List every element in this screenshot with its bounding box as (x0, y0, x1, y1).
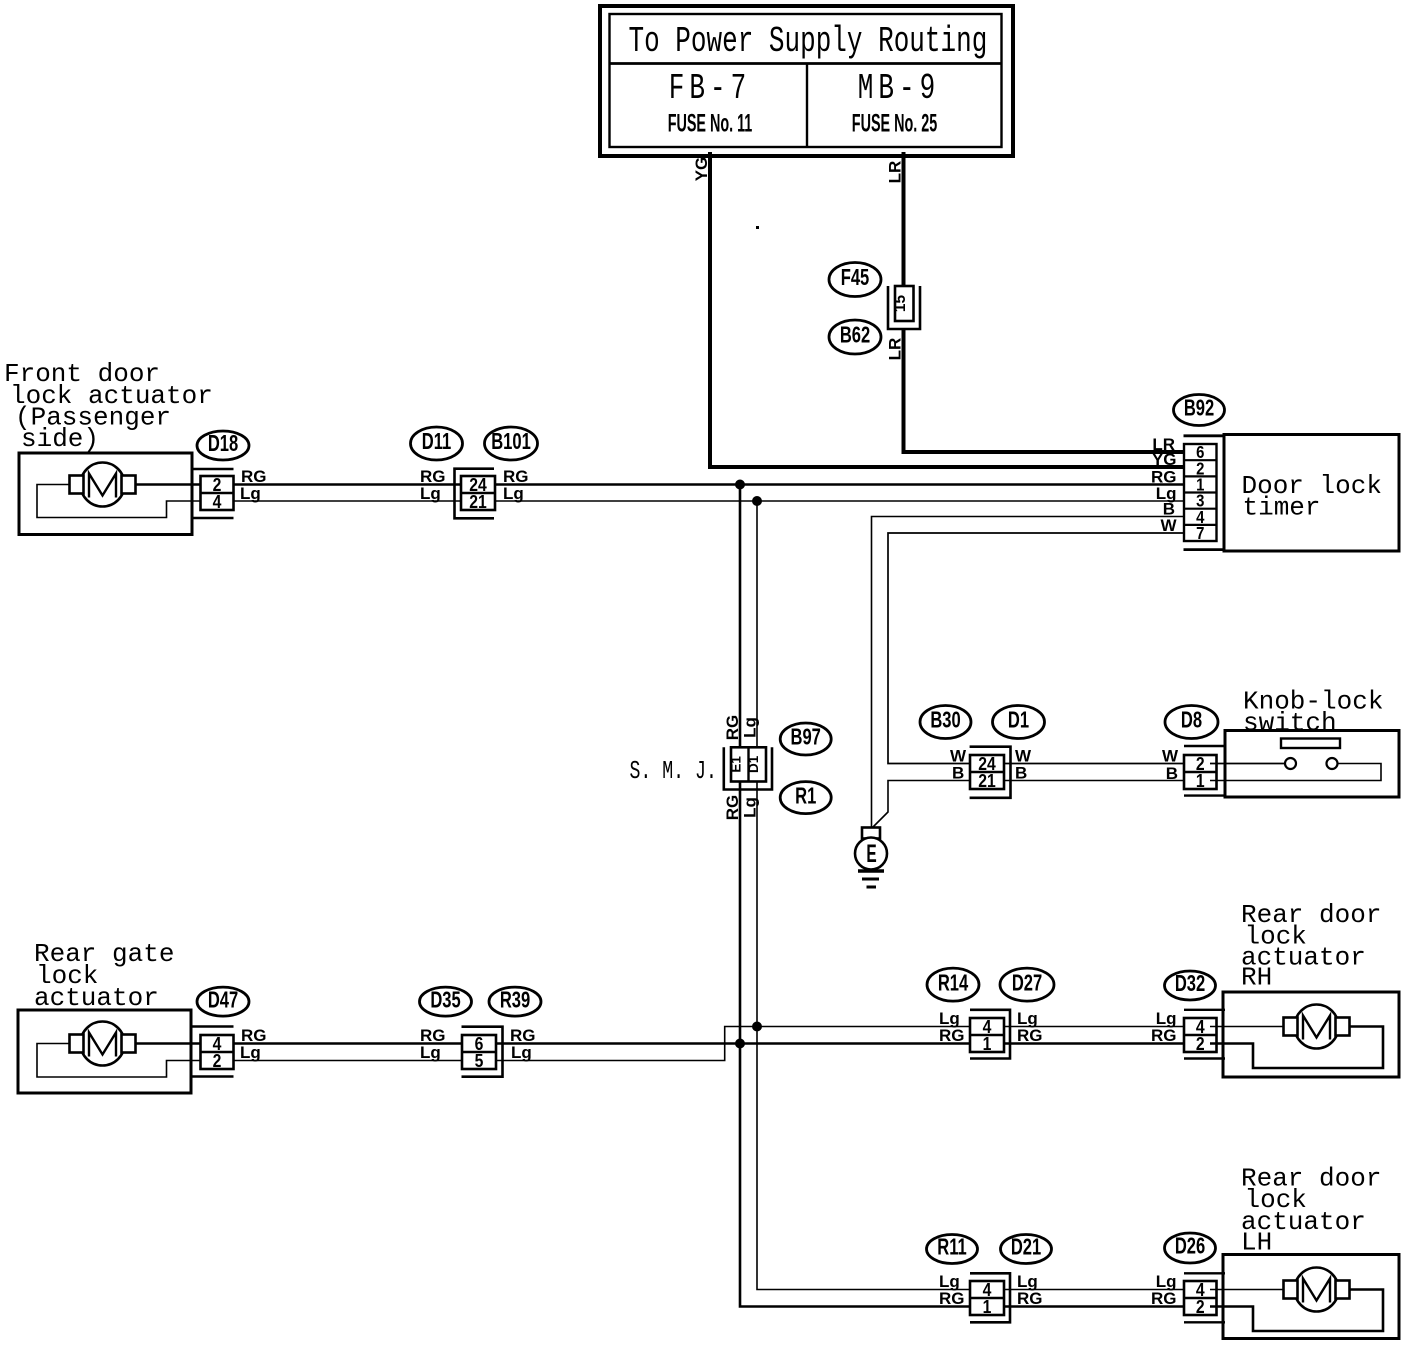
wire Lg row1 (233, 484, 1184, 503)
wire RG rear gate to D35 (233, 1026, 462, 1045)
wire W B30 to D8 (1004, 747, 1184, 766)
wire B timer pin4 to ground (872, 517, 1185, 828)
wire W timer pin7 to knob-lock switch (888, 533, 1184, 766)
svg-text:1: 1 (983, 1033, 992, 1055)
wire Lg D35 to R14 with step (496, 1027, 970, 1063)
svg-text:LR: LR (886, 338, 905, 361)
svg-text:S. M. J.: S. M. J. (630, 756, 717, 786)
svg-text:B97: B97 (791, 725, 821, 750)
wire Lg rear gate to D35 (233, 1043, 462, 1062)
wire YG from FB-7 to timer pin 2 (692, 152, 1184, 469)
wire Lg R11 to D26 (1004, 1272, 1184, 1291)
svg-text:RG: RG (1017, 1026, 1043, 1045)
svg-text:15: 15 (892, 295, 909, 313)
svg-text:side): side) (21, 424, 99, 454)
svg-text:D11: D11 (422, 430, 451, 455)
svg-text:2: 2 (1196, 1296, 1205, 1318)
svg-text:F45: F45 (841, 266, 870, 291)
svg-text:Lg: Lg (420, 1043, 441, 1062)
svg-text:Lg: Lg (240, 1043, 261, 1062)
door lock timer (1184, 435, 1400, 552)
svg-text:R1: R1 (795, 784, 816, 809)
svg-text:Lg: Lg (503, 484, 524, 503)
junction RG row3 (735, 1039, 745, 1049)
svg-text:Lg: Lg (511, 1043, 532, 1062)
svg-text:YG: YG (692, 157, 711, 182)
svg-text:timer: timer (1243, 493, 1321, 523)
svg-text:B: B (1015, 764, 1027, 783)
rear gate lock actuator (18, 939, 191, 1093)
wire RG R14 to D32 (1004, 1026, 1184, 1045)
svg-text:switch: switch (1243, 708, 1337, 738)
svg-text:B: B (952, 764, 964, 783)
connector D8 (1165, 706, 1225, 796)
svg-text:4: 4 (213, 491, 222, 513)
connector D47 (191, 987, 249, 1076)
svg-text:RG: RG (939, 1026, 965, 1045)
svg-text:Lg: Lg (741, 797, 760, 818)
svg-text:RG: RG (723, 795, 742, 821)
svg-text:D1: D1 (1008, 708, 1029, 733)
svg-text:B30: B30 (930, 708, 960, 733)
junction Lg row3 (752, 1022, 762, 1032)
svg-text:D1: D1 (746, 755, 761, 773)
svg-text:2: 2 (213, 1050, 222, 1072)
svg-text:FUSE No. 25: FUSE No. 25 (852, 111, 937, 138)
wire RG R11 to D26 (1004, 1289, 1184, 1308)
svg-text:Lg: Lg (420, 484, 441, 503)
svg-text:21: 21 (978, 770, 996, 792)
wire Lg R14 to D32 (1004, 1009, 1184, 1028)
svg-text:B92: B92 (1184, 396, 1214, 421)
svg-text:RG: RG (1151, 1026, 1177, 1045)
wire RG vertical bus lower (740, 1044, 970, 1307)
junction Lg row1 (752, 496, 762, 506)
svg-text:LR: LR (886, 161, 905, 184)
connector D11/B101 (411, 427, 538, 518)
ground E (855, 828, 887, 888)
connector D18 (192, 431, 249, 518)
svg-text:FB-7: FB-7 (669, 69, 751, 109)
svg-text:D26: D26 (1175, 1234, 1205, 1259)
svg-text:D35: D35 (430, 988, 460, 1013)
svg-text:RG: RG (1151, 1289, 1177, 1308)
wire RG vertical bus (723, 485, 742, 1044)
motor M front door actuator (37, 463, 204, 518)
svg-text:D32: D32 (1175, 972, 1205, 997)
motor M rear gate actuator (37, 1022, 204, 1078)
connector B30/D1 (920, 706, 1045, 798)
svg-text:5: 5 (475, 1050, 484, 1072)
timer wire labels LR YG RG Lg B W (1151, 468, 1177, 536)
rear door lock actuator RH (1223, 900, 1399, 1077)
motor M rear door actuator RH (1210, 1005, 1383, 1069)
power supply routing box (600, 6, 1013, 156)
svg-text:Lg: Lg (741, 717, 760, 738)
svg-text:E: E (866, 840, 876, 868)
connector F45/B62 fuse 15 (829, 263, 920, 355)
svg-text:Lg: Lg (240, 484, 261, 503)
wire RG row1 (233, 467, 1184, 486)
svg-text:FUSE No. 11: FUSE No. 11 (668, 111, 753, 138)
svg-text:2: 2 (1196, 1033, 1205, 1055)
wire Lg vertical bus lower (757, 1027, 970, 1290)
svg-text:To Power Supply Routing: To Power Supply Routing (629, 22, 988, 62)
front door lock actuator (passenger side) (4, 359, 213, 535)
junction RG row1 (735, 480, 745, 490)
svg-text:R11: R11 (937, 1235, 966, 1260)
svg-text:1: 1 (1196, 770, 1205, 792)
svg-text:LR: LR (1152, 435, 1175, 454)
svg-text:W: W (1162, 747, 1179, 766)
svg-text:D27: D27 (1012, 971, 1042, 996)
svg-text:D18: D18 (208, 432, 238, 457)
node MB-9 FUSE No.25 (852, 69, 940, 137)
connector R11/D21 (927, 1235, 1052, 1323)
svg-text:RG: RG (939, 1289, 965, 1308)
svg-text:R39: R39 (500, 988, 530, 1013)
connector R14/D27 (927, 968, 1054, 1058)
svg-text:21: 21 (469, 491, 487, 513)
connector B92 (1174, 395, 1225, 544)
SMJ connector B97/R1 (630, 723, 832, 814)
svg-text:D47: D47 (208, 988, 238, 1013)
svg-text:B62: B62 (840, 323, 870, 348)
svg-text:D8: D8 (1181, 708, 1202, 733)
node FB-7 FUSE No.11 (668, 69, 753, 137)
knob-lock switch (1210, 687, 1399, 798)
wire RG D35 to R14 (496, 1026, 970, 1045)
svg-text:RG: RG (1017, 1289, 1043, 1308)
svg-text:MB-9: MB-9 (858, 69, 940, 109)
svg-text:B101: B101 (491, 430, 531, 455)
node speck (756, 226, 759, 229)
svg-text:1: 1 (983, 1296, 992, 1318)
wire Lg vertical bus (741, 501, 760, 1027)
svg-text:7: 7 (1196, 524, 1204, 543)
svg-text:RG: RG (723, 715, 742, 741)
svg-text:B: B (1166, 764, 1178, 783)
motor M rear door actuator LH (1210, 1268, 1383, 1332)
svg-text:D21: D21 (1011, 1235, 1041, 1260)
rear door lock actuator LH (1223, 1164, 1399, 1339)
wire B knob-lock to ground (873, 764, 970, 828)
wire B B30 to D8 (1004, 764, 1184, 784)
connector D26 (1165, 1233, 1226, 1322)
svg-text:E1: E1 (729, 756, 744, 773)
connector D32 (1165, 971, 1226, 1059)
wire LR from MB-9 through fuse connector to timer pin 6 (886, 152, 1185, 454)
svg-text:R14: R14 (938, 971, 969, 996)
svg-text:RH: RH (1241, 963, 1272, 993)
connector D35/R39 (420, 987, 542, 1077)
